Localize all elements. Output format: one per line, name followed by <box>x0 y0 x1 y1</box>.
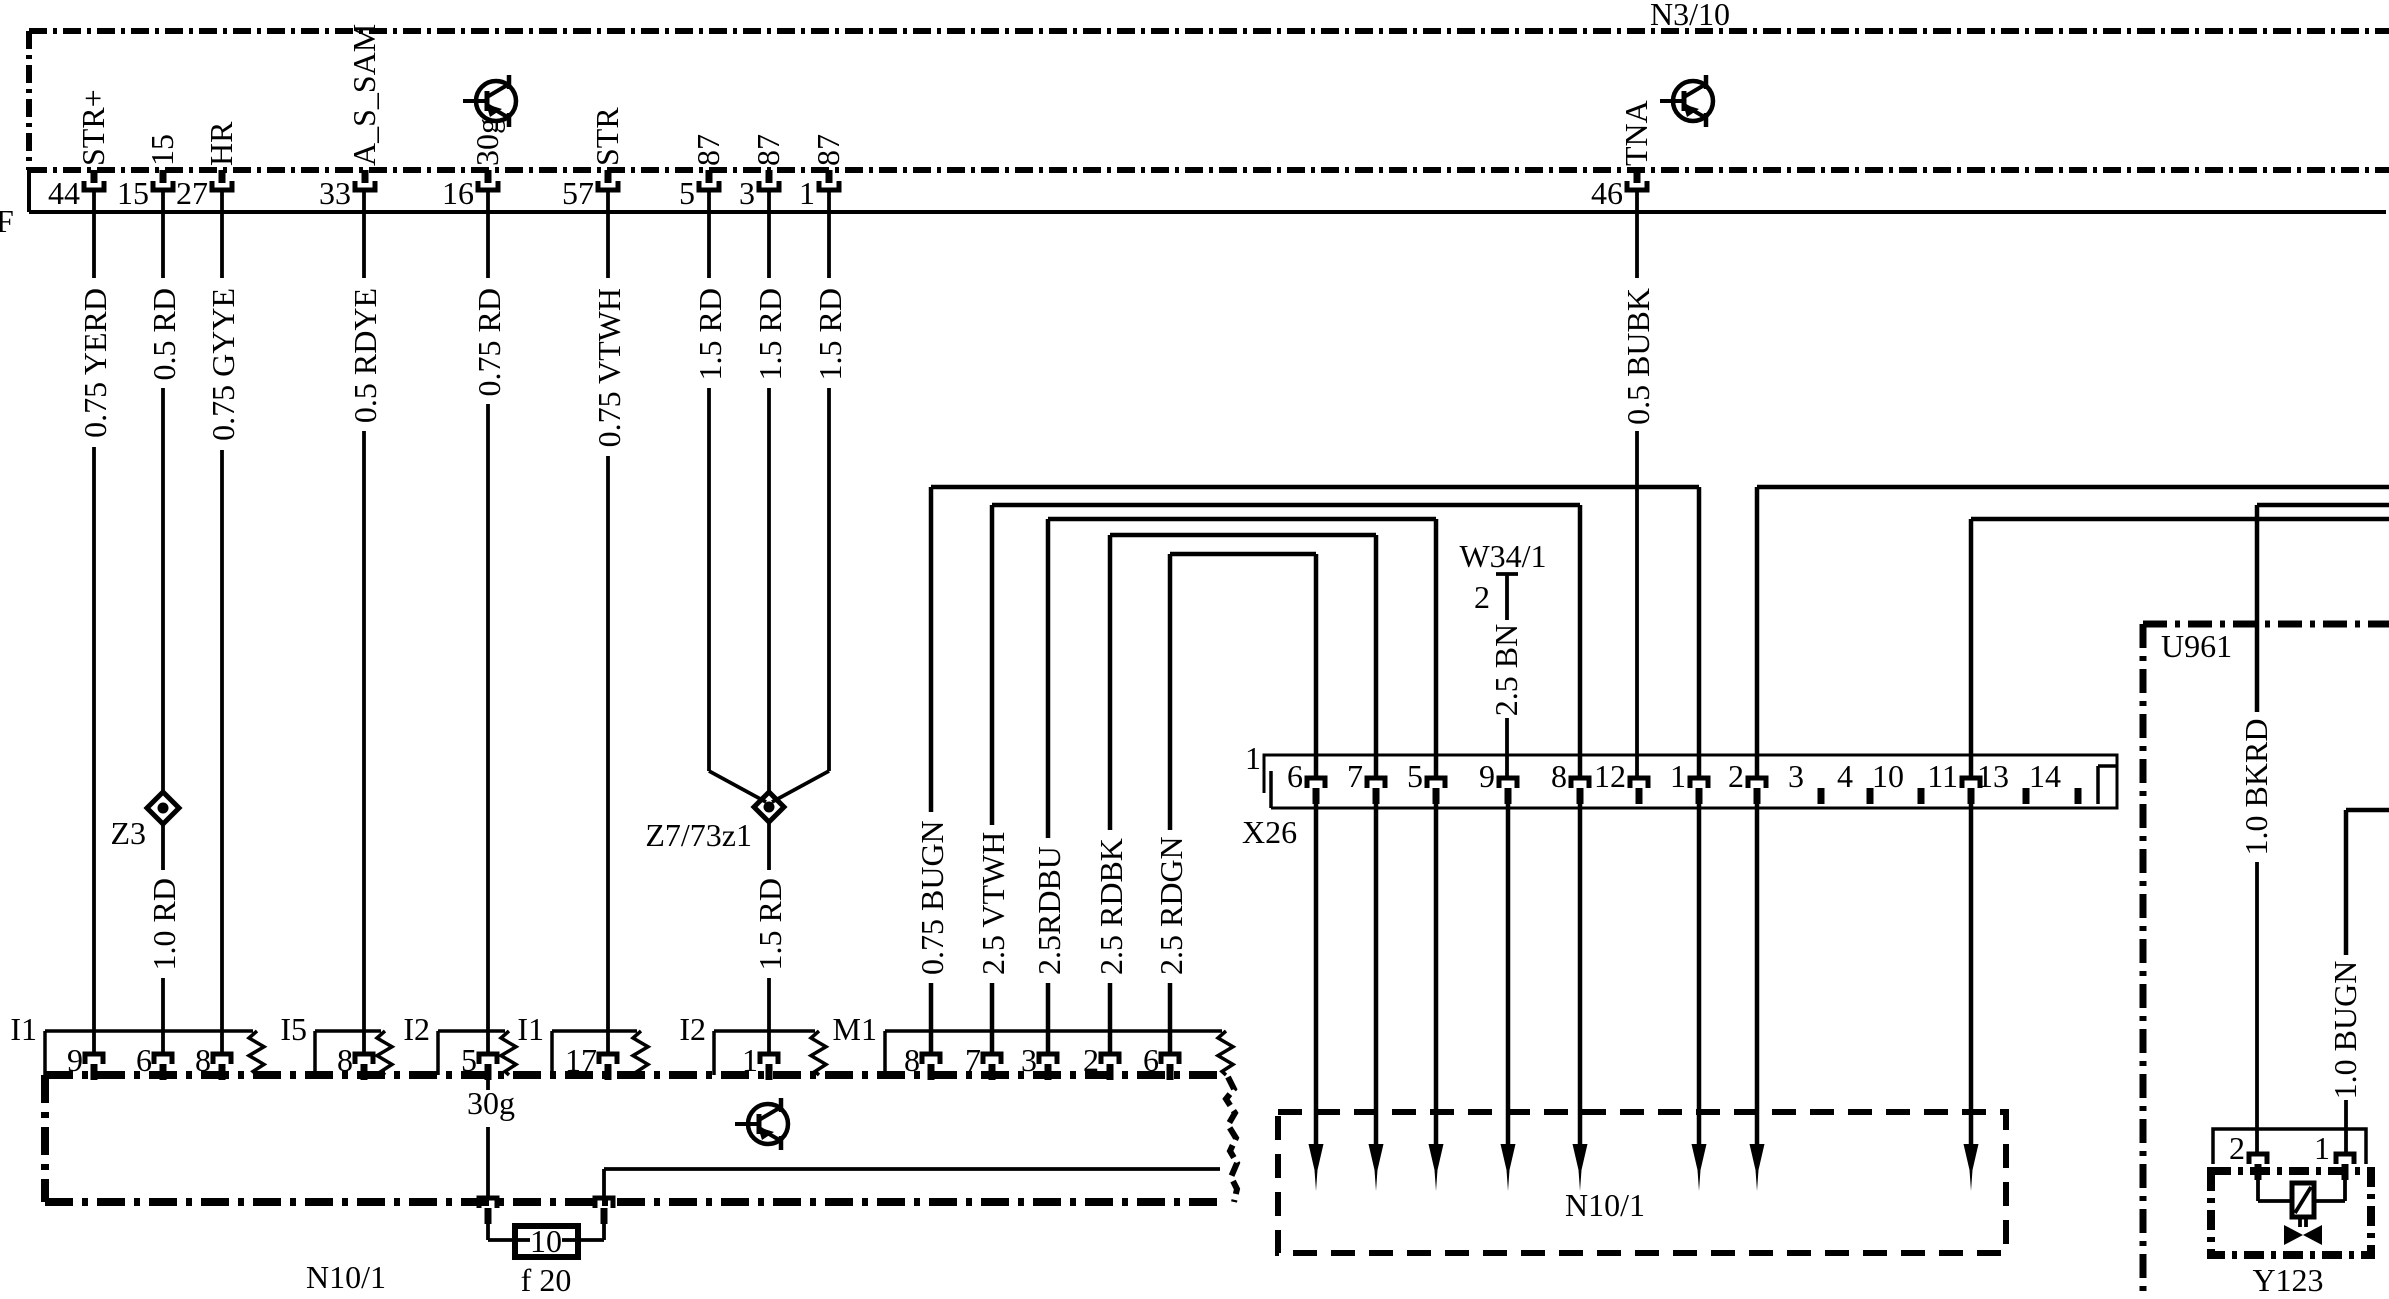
svg-text:0.75 BUGN: 0.75 BUGN <box>914 820 950 975</box>
wire 0.75 YERD from pin 44 to I1 pin 9 <box>77 189 113 1054</box>
wire 30g down to fuse f20 <box>479 1079 515 1240</box>
wire 1.0 BUGN from right edge to Y123 pin 1 <box>2327 810 2389 1154</box>
svg-text:N10/1: N10/1 <box>306 1259 386 1295</box>
transistor symbol inside N10/1 <box>735 1098 788 1150</box>
X26 pin 10 (unused) <box>1872 758 1925 804</box>
wire from X26 down to N10/1 at x=1757 <box>1750 804 1765 1191</box>
wire from X26 down to N10/1 at x=1699 <box>1692 804 1707 1191</box>
Y123 solenoid <box>2292 1183 2314 1217</box>
X26 pin 5 <box>1407 758 1445 804</box>
svg-text:87: 87 <box>690 134 726 166</box>
pin 27 of N3/10 (HR) <box>176 121 239 211</box>
pin 16 of N3/10 (30g) <box>442 118 505 211</box>
wire from X26 down to N10/1 at x=1316 <box>1309 804 1324 1191</box>
wire 0.5 RD from pin 15 to splice Z3 <box>146 189 182 792</box>
wire 0.5 RDYE from pin 33 to I5 pin 8 <box>347 189 383 1054</box>
component U961 dash-dot frame <box>2143 624 2389 1299</box>
svg-text:57: 57 <box>562 175 594 211</box>
svg-text:1: 1 <box>2314 1130 2330 1166</box>
svg-text:f 20: f 20 <box>521 1262 572 1298</box>
svg-text:2.5 VTWH: 2.5 VTWH <box>975 832 1011 975</box>
svg-text:30g: 30g <box>469 118 505 166</box>
bus bar F <box>29 170 2386 212</box>
svg-text:I1: I1 <box>10 1011 37 1047</box>
X26 pin 14 (unused) <box>2029 758 2082 804</box>
transistor symbol at pin 46 (TNA output stage) <box>1660 75 1713 127</box>
svg-text:1.0 BUGN: 1.0 BUGN <box>2327 961 2363 1100</box>
svg-text:46: 46 <box>1591 175 1623 211</box>
connector box I1 <box>517 1011 648 1080</box>
wire 1.5 RD from pin 5 to splice Z7/73z1 <box>692 189 766 802</box>
control unit N3/10 frame <box>29 31 2389 170</box>
wire from X26 down to N10/1 at x=1436 <box>1429 804 1444 1191</box>
Y123 internal wiring <box>2258 1180 2345 1201</box>
wire from X26 down to N10/1 at x=1971 <box>1964 804 1979 1191</box>
X26 pin 2 <box>1728 758 1766 804</box>
wire 1.0 BKRD from right edge to Y123 pin 2 <box>2238 505 2389 1154</box>
svg-text:2: 2 <box>1728 758 1744 794</box>
svg-text:0.75 RD: 0.75 RD <box>471 288 507 396</box>
X26 pin 4 (unused) <box>1837 758 1874 804</box>
svg-text:1.0 RD: 1.0 RD <box>146 878 182 970</box>
wire 0.75 BUGN from M1 to X26 <box>914 487 1699 1054</box>
svg-text:2.5 RDGN: 2.5 RDGN <box>1153 836 1189 975</box>
pin 3 of N3/10 (87) <box>739 134 786 211</box>
pin 5 of N3/10 (87) <box>679 134 726 211</box>
svg-text:1: 1 <box>1670 758 1686 794</box>
svg-text:1: 1 <box>1245 740 1261 776</box>
svg-text:10: 10 <box>530 1223 562 1259</box>
svg-text:1: 1 <box>799 175 815 211</box>
pin 15 of N3/10 (15) <box>117 134 180 211</box>
wire 1.5 RD from pin 3 to splice Z7/73z1 <box>752 189 788 793</box>
control unit N10/1 (bottom middle) dashed frame <box>1278 1112 2006 1253</box>
svg-text:N3/10: N3/10 <box>1650 0 1730 32</box>
wire 2.5 VTWH from M1 to X26 <box>975 505 1580 1054</box>
X26 pin 1 <box>1670 758 1708 804</box>
svg-text:10: 10 <box>1872 758 1904 794</box>
terminal W34/1 <box>1459 538 1546 620</box>
svg-text:2: 2 <box>2229 1130 2245 1166</box>
svg-text:0.5 BUBK: 0.5 BUBK <box>1620 288 1656 425</box>
wire 2.5 RDGN from M1 to X26 <box>1153 554 1316 1054</box>
pin 44 of N3/10 (STR+) <box>48 89 111 211</box>
Y123 pin 2 <box>2229 1130 2267 1180</box>
wire 2.5RDBU from M1 to X26 <box>1031 519 1436 1054</box>
connector box I2 <box>403 1011 516 1080</box>
pin 1 of N3/10 (87) <box>799 134 846 211</box>
X26 pin 6 <box>1287 758 1325 804</box>
svg-text:M1: M1 <box>833 1011 877 1047</box>
X26 pin 12 <box>1594 758 1648 804</box>
wire from X26 pin 2 up and right <box>1757 487 2389 778</box>
wire 0.75 GYYE from pin 27 to I1 pin 8 <box>205 189 241 1054</box>
svg-text:2: 2 <box>1474 579 1490 615</box>
svg-text:HR: HR <box>203 121 239 166</box>
pin 46 of N3/10 (TNA) <box>1591 100 1654 211</box>
svg-text:U961: U961 <box>2161 628 2232 664</box>
Y123 dash-dot frame <box>2211 1171 2371 1255</box>
svg-text:87: 87 <box>750 134 786 166</box>
Y123 pin 1 <box>2314 1130 2354 1180</box>
transistor symbol at pin 16 (30g output stage) <box>463 75 516 127</box>
svg-text:2.5RDBU: 2.5RDBU <box>1031 846 1067 975</box>
wire 0.75 VTWH from pin 57 to I2 pin 17 <box>591 189 627 1054</box>
svg-text:I2: I2 <box>403 1011 430 1047</box>
connector box I1 <box>10 1011 264 1080</box>
svg-text:5: 5 <box>679 175 695 211</box>
svg-text:13: 13 <box>1977 758 2009 794</box>
wire from X26 down to N10/1 at x=1508 <box>1501 804 1516 1191</box>
svg-text:3: 3 <box>739 175 755 211</box>
svg-text:I2: I2 <box>679 1011 706 1047</box>
svg-text:Y123: Y123 <box>2252 1262 2323 1298</box>
svg-text:STR+: STR+ <box>75 89 111 166</box>
control unit N10/1 (lower left) dash-dot frame <box>45 1075 1237 1202</box>
X26 pin 8 <box>1551 758 1589 804</box>
svg-text:14: 14 <box>2029 758 2061 794</box>
svg-text:16: 16 <box>442 175 474 211</box>
svg-text:TNA: TNA <box>1618 100 1654 166</box>
pin 57 of N3/10 (STR) <box>562 107 625 211</box>
svg-text:87: 87 <box>810 134 846 166</box>
svg-text:2.5 BN: 2.5 BN <box>1488 624 1524 716</box>
X26 pin 9 <box>1479 758 1517 804</box>
svg-text:11: 11 <box>1927 758 1958 794</box>
svg-text:1.5 RD: 1.5 RD <box>752 878 788 970</box>
connector box I5 <box>280 1011 392 1080</box>
wire 1.5 RD from Z7/73z1 to M1 pin 1 <box>752 822 788 1054</box>
svg-text:6: 6 <box>1287 758 1303 794</box>
svg-text:A_S_SAM: A_S_SAM <box>346 24 382 166</box>
connector box M1 <box>833 1011 1233 1080</box>
svg-text:44: 44 <box>48 175 80 211</box>
fuse f20 (10 A) <box>515 1223 578 1259</box>
svg-text:27: 27 <box>176 175 208 211</box>
svg-text:1.5 RD: 1.5 RD <box>752 288 788 380</box>
svg-text:0.5 RDYE: 0.5 RDYE <box>347 288 383 423</box>
svg-text:STR: STR <box>589 107 625 166</box>
connector box of Y123 <box>2213 1129 2366 1164</box>
svg-text:3: 3 <box>1788 758 1804 794</box>
svg-text:7: 7 <box>1347 758 1363 794</box>
wire 2.5 BN from W34/1 pin 2 to X26 pin 9 <box>1488 624 1524 778</box>
svg-text:1.0 BKRD: 1.0 BKRD <box>2238 719 2274 856</box>
X26 pin 13 (unused) <box>1977 758 2030 804</box>
wire 1.5 RD from pin 1 to splice Z7/73z1 <box>772 189 848 802</box>
wire 2.5 RDBK from M1 to X26 <box>1093 535 1376 1054</box>
connector box I2 <box>679 1011 826 1080</box>
svg-text:1.5 RD: 1.5 RD <box>692 288 728 380</box>
pin 33 of N3/10 (A_S_SAM) <box>319 24 382 211</box>
svg-text:Z7/73z1: Z7/73z1 <box>645 817 752 853</box>
svg-text:4: 4 <box>1837 758 1853 794</box>
X26 pin 7 <box>1347 758 1385 804</box>
svg-text:0.5 RD: 0.5 RD <box>146 288 182 380</box>
Y123 valve symbol <box>2284 1217 2322 1245</box>
svg-text:F: F <box>0 203 14 239</box>
svg-text:2.5 RDBK: 2.5 RDBK <box>1093 838 1129 975</box>
svg-text:0.75 GYYE: 0.75 GYYE <box>205 288 241 441</box>
svg-text:0.75 YERD: 0.75 YERD <box>77 288 113 438</box>
svg-text:30g: 30g <box>467 1085 515 1121</box>
svg-text:I1: I1 <box>517 1011 544 1047</box>
X26 pin 11 <box>1927 758 1980 804</box>
svg-text:W34/1: W34/1 <box>1459 538 1546 574</box>
connector X26 strip <box>1264 755 2117 808</box>
wire 1.0 RD from Z3 to I1 pin 6 <box>146 824 182 1054</box>
wire from fuse f20 back into N10/1 <box>578 1169 1220 1240</box>
svg-text:1.5 RD: 1.5 RD <box>812 288 848 380</box>
splice Z3 <box>147 792 179 824</box>
svg-text:0.75 VTWH: 0.75 VTWH <box>591 288 627 447</box>
svg-text:15: 15 <box>144 134 180 166</box>
svg-text:5: 5 <box>1407 758 1423 794</box>
svg-text:N10/1: N10/1 <box>1565 1187 1645 1223</box>
wire from X26 down to N10/1 at x=1580 <box>1573 804 1588 1191</box>
svg-text:Z3: Z3 <box>110 815 146 851</box>
svg-text:I5: I5 <box>280 1011 307 1047</box>
wire 0.5 BUBK from pin 46 to X26 pin 12 <box>1620 189 1656 778</box>
svg-text:X26: X26 <box>1242 814 1297 850</box>
wire 0.75 RD from pin 16 to I2 pin 5 <box>471 189 507 1054</box>
svg-text:12: 12 <box>1594 758 1626 794</box>
svg-text:9: 9 <box>1479 758 1495 794</box>
X26 pin 3 (unused) <box>1788 758 1825 804</box>
svg-text:33: 33 <box>319 175 351 211</box>
wire from X26 down to N10/1 at x=1376 <box>1369 804 1384 1191</box>
wire from X26 pin 11 up and right <box>1971 519 2389 778</box>
svg-text:15: 15 <box>117 175 149 211</box>
splice Z7/73z1 <box>754 792 784 822</box>
svg-text:8: 8 <box>1551 758 1567 794</box>
